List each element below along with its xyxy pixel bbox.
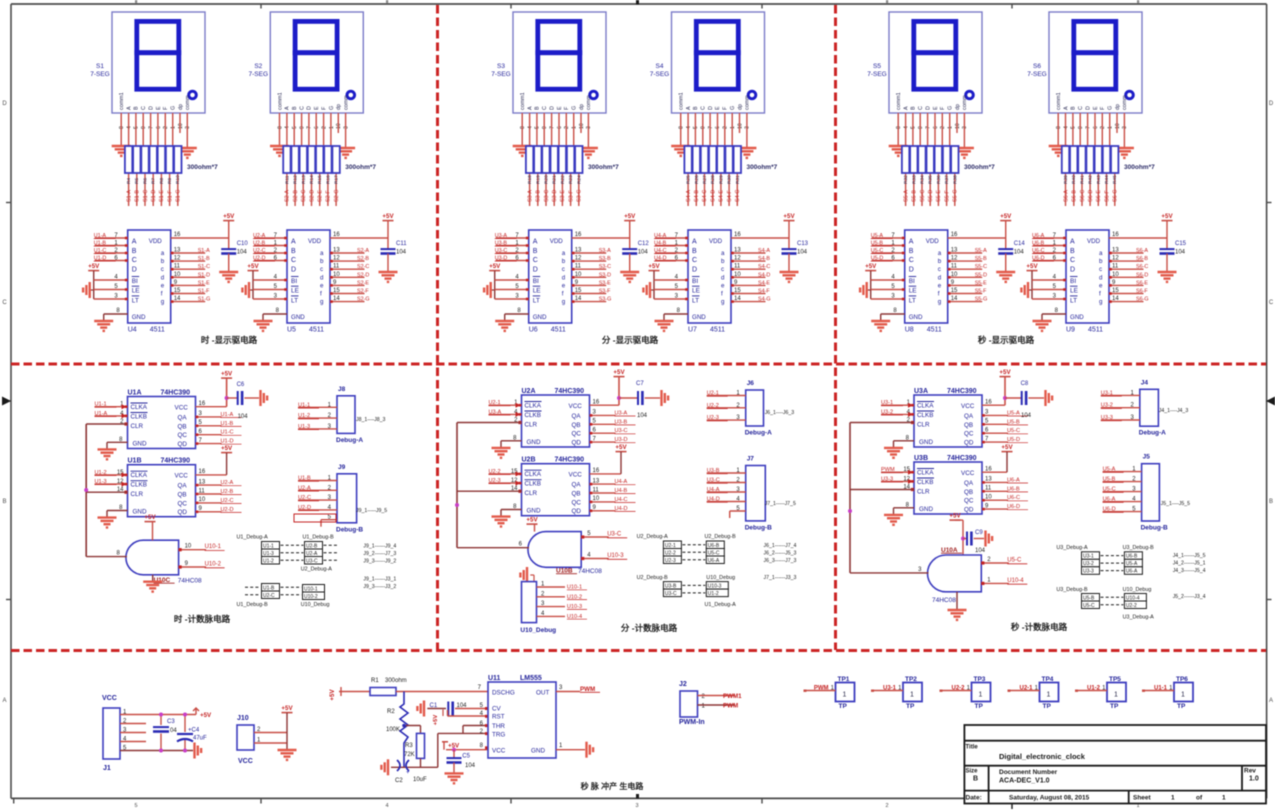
svg-text:CLKB: CLKB xyxy=(525,412,541,419)
svg-text:1: 1 xyxy=(948,126,954,129)
svg-text:S6-A: S6-A xyxy=(1136,248,1148,254)
svg-text:D: D xyxy=(692,266,697,273)
svg-text:S1-E: S1-E xyxy=(198,280,210,286)
svg-text:74HC390: 74HC390 xyxy=(947,388,977,395)
svg-text:C11: C11 xyxy=(396,241,407,247)
svg-text:8: 8 xyxy=(1056,126,1062,129)
svg-text:74HC08: 74HC08 xyxy=(932,597,956,604)
svg-text:D: D xyxy=(307,106,313,110)
svg-text:U3-1: U3-1 xyxy=(1101,390,1113,396)
svg-text:D: D xyxy=(148,106,154,110)
svg-text:16: 16 xyxy=(951,232,958,238)
svg-text:G: G xyxy=(329,106,335,110)
svg-text:S3-D: S3-D xyxy=(552,190,558,202)
svg-text:C: C xyxy=(2,300,7,306)
svg-text:VDD: VDD xyxy=(1087,238,1101,245)
svg-text:U6-D: U6-D xyxy=(1007,504,1020,510)
svg-text:10: 10 xyxy=(737,123,743,129)
svg-text:S5-C: S5-C xyxy=(920,190,926,202)
svg-text:b: b xyxy=(320,258,324,265)
svg-text:VCC: VCC xyxy=(175,473,189,480)
svg-text:QB: QB xyxy=(178,492,187,499)
svg-text:14: 14 xyxy=(575,296,582,302)
svg-text:12: 12 xyxy=(951,256,958,262)
svg-text:GND: GND xyxy=(919,439,933,446)
svg-text:7-SEG: 7-SEG xyxy=(249,71,269,78)
svg-text:16: 16 xyxy=(575,232,582,238)
svg-text:13: 13 xyxy=(174,248,181,254)
svg-text:Debug-B: Debug-B xyxy=(745,524,772,531)
svg-text:10: 10 xyxy=(575,272,582,278)
svg-text:LT: LT xyxy=(132,297,139,304)
svg-text:J2: J2 xyxy=(679,681,687,688)
svg-text:104: 104 xyxy=(1021,413,1032,419)
svg-text:3: 3 xyxy=(185,126,191,129)
svg-text:D: D xyxy=(1070,266,1075,273)
svg-text:LE: LE xyxy=(909,288,918,295)
svg-text:S1: S1 xyxy=(96,63,104,70)
svg-text:VCC: VCC xyxy=(238,758,253,765)
svg-text:12: 12 xyxy=(174,256,181,262)
svg-text:U1-2: U1-2 xyxy=(95,470,107,476)
svg-text:CLKB: CLKB xyxy=(917,479,933,486)
svg-text:comm1: comm1 xyxy=(1056,92,1062,110)
svg-text:U2_Debug-B: U2_Debug-B xyxy=(637,575,669,581)
svg-text:QC: QC xyxy=(572,431,582,438)
svg-text:U11: U11 xyxy=(488,675,501,682)
svg-text:U2-3: U2-3 xyxy=(707,415,719,421)
svg-text:R19: R19 xyxy=(535,175,541,184)
svg-text:S6-C: S6-C xyxy=(1136,264,1148,270)
svg-text:CV: CV xyxy=(492,706,502,713)
svg-text:GND: GND xyxy=(291,314,305,321)
svg-text:J4_2------J5_1: J4_2------J5_1 xyxy=(1173,561,1206,567)
svg-text:C15: C15 xyxy=(1175,241,1187,247)
svg-text:J6_2------J5_3: J6_2------J5_3 xyxy=(764,551,797,557)
svg-text:1: 1 xyxy=(1181,692,1185,699)
svg-text:U2-1: U2-1 xyxy=(1019,686,1033,692)
svg-text:14: 14 xyxy=(333,296,340,302)
svg-text:E: E xyxy=(156,106,162,110)
svg-text:13: 13 xyxy=(1112,248,1119,254)
svg-text:QD: QD xyxy=(178,509,188,516)
svg-text:R11: R11 xyxy=(284,175,290,184)
svg-text:CLKB: CLKB xyxy=(131,414,147,421)
svg-text:S1-B: S1-B xyxy=(135,190,141,202)
svg-text:B: B xyxy=(2,499,6,505)
svg-text:S4-A: S4-A xyxy=(686,190,692,202)
svg-text:74HC08: 74HC08 xyxy=(178,578,202,585)
svg-text:U1A: U1A xyxy=(128,390,142,397)
svg-text:300ohm: 300ohm xyxy=(385,678,407,684)
svg-text:9: 9 xyxy=(1078,126,1084,129)
svg-text:S5-F: S5-F xyxy=(944,190,950,202)
svg-text:U3-C: U3-C xyxy=(615,428,628,434)
svg-text:VDD: VDD xyxy=(149,238,163,245)
svg-text:U3-B: U3-B xyxy=(665,583,677,589)
svg-text:U2-D: U2-D xyxy=(298,505,311,511)
svg-text:S5-E: S5-E xyxy=(936,190,942,202)
svg-text:A: A xyxy=(2,698,6,704)
svg-text:R6: R6 xyxy=(143,178,149,184)
svg-text:+5V: +5V xyxy=(247,263,259,270)
svg-text:U1-1: U1-1 xyxy=(298,402,310,408)
svg-text:15: 15 xyxy=(951,288,958,294)
svg-text:R27: R27 xyxy=(702,175,708,184)
svg-text:U5-C: U5-C xyxy=(1007,428,1020,434)
svg-text:1: 1 xyxy=(730,126,736,129)
svg-text:TP: TP xyxy=(906,703,915,710)
svg-text:E: E xyxy=(933,106,939,110)
svg-text:R9: R9 xyxy=(167,178,173,184)
svg-text:16: 16 xyxy=(1112,232,1119,238)
svg-text:E: E xyxy=(557,106,563,110)
svg-text:+5V: +5V xyxy=(1000,213,1012,220)
svg-text:A: A xyxy=(903,106,909,110)
svg-text:S3-C: S3-C xyxy=(544,190,550,202)
svg-text:b: b xyxy=(1099,258,1103,265)
svg-text:S3-F: S3-F xyxy=(568,190,574,202)
svg-text:G: G xyxy=(572,106,578,110)
svg-text:C10: C10 xyxy=(237,241,249,247)
svg-text:13: 13 xyxy=(333,248,340,254)
svg-text:S1-F: S1-F xyxy=(167,190,173,202)
svg-text:S3-G: S3-G xyxy=(577,189,583,202)
svg-text:S4-A: S4-A xyxy=(758,248,770,254)
svg-text:f: f xyxy=(1099,291,1101,298)
svg-text:GND: GND xyxy=(133,441,147,448)
svg-text:S5-B: S5-B xyxy=(912,190,918,202)
svg-text:S4-D: S4-D xyxy=(758,272,770,278)
svg-text:Rev: Rev xyxy=(1244,768,1256,775)
svg-text:R21: R21 xyxy=(552,175,558,184)
svg-text:S4-F: S4-F xyxy=(758,289,770,295)
svg-text:S2-G: S2-G xyxy=(334,189,340,202)
svg-text:C3: C3 xyxy=(167,719,175,725)
svg-text:1: 1 xyxy=(329,126,335,129)
svg-text:S4-G: S4-G xyxy=(735,189,741,202)
svg-text:C: C xyxy=(909,257,914,264)
svg-text:U4-D: U4-D xyxy=(615,506,628,512)
svg-text:U3-3: U3-3 xyxy=(1101,415,1113,421)
svg-text:72K: 72K xyxy=(404,752,415,758)
svg-text:74HC08: 74HC08 xyxy=(578,568,602,575)
svg-text:U2B: U2B xyxy=(522,457,536,464)
svg-text:R38: R38 xyxy=(952,175,958,184)
svg-text:A: A xyxy=(132,239,137,246)
svg-text:13: 13 xyxy=(199,479,206,485)
svg-text:10: 10 xyxy=(1115,123,1121,129)
svg-text:+5V: +5V xyxy=(200,712,212,719)
svg-text:comm1: comm1 xyxy=(896,92,902,110)
svg-text:3: 3 xyxy=(635,803,638,809)
svg-text:R23: R23 xyxy=(568,175,574,184)
svg-text:13: 13 xyxy=(575,248,582,254)
svg-text:f: f xyxy=(320,291,322,298)
svg-text:S2-E: S2-E xyxy=(357,280,369,286)
svg-text:S5-B: S5-B xyxy=(975,256,987,262)
svg-text:104: 104 xyxy=(797,250,808,256)
svg-text:6: 6 xyxy=(314,126,320,129)
svg-text:G: G xyxy=(171,106,177,110)
svg-text:LT: LT xyxy=(533,297,540,304)
svg-text:U2-2: U2-2 xyxy=(707,403,719,409)
svg-text:S6: S6 xyxy=(1033,63,1041,70)
svg-text:R1: R1 xyxy=(371,678,379,684)
svg-text:10: 10 xyxy=(185,544,192,550)
svg-text:B: B xyxy=(292,106,298,110)
svg-text:S3: S3 xyxy=(497,63,505,70)
svg-text:U10-1: U10-1 xyxy=(205,544,222,550)
svg-text:R12: R12 xyxy=(293,175,299,184)
svg-text:1: 1 xyxy=(1222,795,1226,802)
svg-text:S5-C: S5-C xyxy=(975,264,987,270)
svg-text:S4: S4 xyxy=(656,63,664,70)
svg-text:A: A xyxy=(527,106,533,110)
svg-text:QB: QB xyxy=(572,422,581,429)
svg-text:g: g xyxy=(320,299,324,306)
svg-text:J7_1------J3_3: J7_1------J3_3 xyxy=(764,575,797,581)
svg-text:R15: R15 xyxy=(317,175,323,184)
svg-text:4511: 4511 xyxy=(551,327,566,334)
svg-text:C8: C8 xyxy=(1021,381,1029,387)
svg-text:S1-A: S1-A xyxy=(126,190,132,202)
svg-text:104: 104 xyxy=(975,548,986,554)
svg-text:14: 14 xyxy=(734,296,741,302)
svg-text:Document Number: Document Number xyxy=(999,769,1058,776)
svg-text:S3-G: S3-G xyxy=(599,297,612,303)
svg-text:R18: R18 xyxy=(527,175,533,184)
svg-text:2: 2 xyxy=(321,126,327,129)
svg-text:16: 16 xyxy=(734,232,741,238)
svg-text:VCC: VCC xyxy=(569,403,583,410)
svg-text:U6-B: U6-B xyxy=(1007,486,1020,492)
svg-text:+5V: +5V xyxy=(615,444,627,451)
svg-text:U2-A: U2-A xyxy=(306,551,318,557)
svg-text:S1-D: S1-D xyxy=(151,190,157,202)
svg-text:5: 5 xyxy=(535,126,541,129)
svg-text:TP: TP xyxy=(1177,703,1186,710)
svg-text:VCC: VCC xyxy=(492,748,506,755)
svg-text:GND: GND xyxy=(527,508,541,515)
svg-text:U5-C: U5-C xyxy=(1083,603,1095,609)
svg-text:S2-E: S2-E xyxy=(318,190,324,202)
svg-text:QB: QB xyxy=(572,491,581,498)
svg-text:15: 15 xyxy=(734,288,741,294)
svg-text:10: 10 xyxy=(336,123,342,129)
svg-text:11: 11 xyxy=(333,264,340,270)
svg-text:R13: R13 xyxy=(301,175,307,184)
svg-text:7: 7 xyxy=(925,126,931,129)
svg-text:4511: 4511 xyxy=(309,327,324,334)
svg-text:U2_Debug-B: U2_Debug-B xyxy=(705,534,737,540)
svg-text:C: C xyxy=(1070,257,1075,264)
svg-text:2: 2 xyxy=(1100,126,1106,129)
svg-text:J4_1------J5_5: J4_1------J5_5 xyxy=(1173,553,1206,559)
svg-text:U3_Debug-A: U3_Debug-A xyxy=(1056,545,1088,551)
svg-text:S1-A: S1-A xyxy=(198,248,210,254)
svg-text:U10-2: U10-2 xyxy=(205,562,222,568)
svg-text:U6-D: U6-D xyxy=(1103,507,1116,513)
svg-text:OUT: OUT xyxy=(536,690,549,697)
svg-text:QA: QA xyxy=(178,483,188,490)
svg-text:U1-B: U1-B xyxy=(263,585,275,591)
svg-text:R43: R43 xyxy=(1096,175,1102,184)
svg-text:+5V: +5V xyxy=(221,445,233,452)
svg-text:S3-E: S3-E xyxy=(599,280,611,286)
svg-text:BI: BI xyxy=(1070,278,1076,285)
svg-text:S5-A: S5-A xyxy=(903,190,909,202)
svg-text:BI: BI xyxy=(291,278,297,285)
svg-text:S4-B: S4-B xyxy=(694,190,700,202)
svg-text:GND: GND xyxy=(533,314,547,321)
svg-text:S6-D: S6-D xyxy=(1088,190,1094,202)
svg-text:U1-B: U1-B xyxy=(221,421,234,427)
svg-text:LM555: LM555 xyxy=(520,675,542,682)
svg-text:CLKB: CLKB xyxy=(525,481,541,488)
svg-text:g: g xyxy=(938,299,942,306)
svg-text:Sheet: Sheet xyxy=(1133,795,1152,802)
svg-text:12: 12 xyxy=(575,256,582,262)
svg-text:J8_1----J8_3: J8_1----J8_3 xyxy=(356,417,386,423)
svg-text:C: C xyxy=(1078,106,1084,110)
svg-text:R10: R10 xyxy=(175,175,181,184)
svg-text:300ohm*7: 300ohm*7 xyxy=(964,164,995,171)
svg-text:TP: TP xyxy=(839,703,848,710)
svg-text:R14: R14 xyxy=(309,175,315,184)
svg-text:104: 104 xyxy=(465,763,476,769)
svg-text:J4_3------J5_4: J4_3------J5_4 xyxy=(1173,568,1206,574)
svg-text:+5V: +5V xyxy=(223,213,235,220)
svg-text:c: c xyxy=(161,266,164,273)
svg-text:J6_3------J7_3: J6_3------J7_3 xyxy=(764,558,797,564)
svg-text:100K: 100K xyxy=(386,727,400,733)
svg-text:11: 11 xyxy=(593,487,600,493)
svg-text:1: 1 xyxy=(1171,795,1175,802)
svg-text:U1_Debug-B: U1_Debug-B xyxy=(303,535,335,541)
svg-text:R33: R33 xyxy=(911,175,917,184)
svg-text:BI: BI xyxy=(533,278,539,285)
svg-text:S1-C: S1-C xyxy=(143,190,149,202)
svg-text:16: 16 xyxy=(985,467,992,473)
svg-text:U10_Debug: U10_Debug xyxy=(1123,587,1152,593)
svg-text:S3-B: S3-B xyxy=(536,190,542,202)
svg-text:C: C xyxy=(299,106,305,110)
svg-text:VCC: VCC xyxy=(961,470,975,477)
svg-text:U2-C: U2-C xyxy=(298,495,311,501)
svg-text:R28: R28 xyxy=(710,175,716,184)
svg-text:C: C xyxy=(701,106,707,110)
svg-text:PWM: PWM xyxy=(814,686,829,692)
svg-text:b: b xyxy=(721,258,725,265)
svg-text:J5_2------J3_4: J5_2------J3_4 xyxy=(1173,594,1206,600)
svg-text:U5-D: U5-D xyxy=(1007,437,1020,443)
svg-text:R30: R30 xyxy=(727,175,733,184)
svg-text:E: E xyxy=(314,106,320,110)
svg-text:S5-E: S5-E xyxy=(975,280,987,286)
svg-text:g: g xyxy=(161,299,165,306)
svg-text:10: 10 xyxy=(174,272,181,278)
svg-text:1: 1 xyxy=(1114,692,1118,699)
svg-text:9: 9 xyxy=(542,126,548,129)
svg-text:7-SEG: 7-SEG xyxy=(1027,71,1047,78)
svg-text:U10-2: U10-2 xyxy=(304,594,318,600)
svg-text:comm1: comm1 xyxy=(520,92,526,110)
svg-text:S4-B: S4-B xyxy=(758,256,770,262)
svg-text:dp: dp xyxy=(336,104,342,110)
svg-text:C13: C13 xyxy=(797,241,809,247)
svg-text:U3_Debug-B: U3_Debug-B xyxy=(1056,587,1088,593)
svg-text:+5V: +5V xyxy=(1001,444,1013,451)
svg-text:B: B xyxy=(973,776,978,783)
svg-text:U3-2: U3-2 xyxy=(1083,561,1094,567)
svg-text:U3-1: U3-1 xyxy=(883,686,897,692)
svg-text:E: E xyxy=(1093,106,1099,110)
svg-text:GND: GND xyxy=(1070,314,1084,321)
svg-text:U2-A: U2-A xyxy=(298,485,311,491)
svg-text:D: D xyxy=(291,266,296,273)
svg-text:+: + xyxy=(406,770,410,776)
svg-text:GND: GND xyxy=(527,439,541,446)
svg-text:f: f xyxy=(938,291,940,298)
svg-text:U1-3: U1-3 xyxy=(263,551,274,557)
svg-text:秒 -计数脉电路: 秒 -计数脉电路 xyxy=(1011,622,1068,632)
svg-text:GND: GND xyxy=(132,314,146,321)
svg-text:秒 -显示驱电路: 秒 -显示驱电路 xyxy=(978,335,1035,345)
svg-text:4: 4 xyxy=(1063,126,1069,129)
svg-text:5: 5 xyxy=(292,126,298,129)
svg-text:3: 3 xyxy=(1122,126,1128,129)
svg-text:U6-C: U6-C xyxy=(1007,495,1020,501)
svg-text:S3-A: S3-A xyxy=(527,190,533,202)
svg-text:S4-C: S4-C xyxy=(758,264,770,270)
svg-text:CLKB: CLKB xyxy=(917,412,933,419)
svg-text:300ohm*7: 300ohm*7 xyxy=(187,164,218,171)
svg-text:10: 10 xyxy=(734,272,741,278)
svg-text:QD: QD xyxy=(178,441,188,448)
svg-text:10: 10 xyxy=(333,272,340,278)
svg-text:J6_1----J6_3: J6_1----J6_3 xyxy=(765,410,795,416)
svg-text:8: 8 xyxy=(896,126,902,129)
svg-text:U8: U8 xyxy=(905,327,914,334)
svg-text:S5-A: S5-A xyxy=(975,248,987,254)
svg-text:D: D xyxy=(925,106,931,110)
svg-text:R4: R4 xyxy=(126,178,132,184)
svg-text:A: A xyxy=(285,106,291,110)
svg-text:d: d xyxy=(721,274,725,281)
svg-text:VDD: VDD xyxy=(308,238,322,245)
svg-text:Saturday, August 08, 2015: Saturday, August 08, 2015 xyxy=(1009,795,1090,802)
svg-text:U10-4: U10-4 xyxy=(1126,595,1140,601)
svg-text:4: 4 xyxy=(285,126,291,129)
svg-text:S4-F: S4-F xyxy=(727,190,733,202)
svg-text:S5-G: S5-G xyxy=(953,189,959,202)
svg-text:QD: QD xyxy=(572,508,582,515)
svg-text:a: a xyxy=(938,250,942,257)
svg-text:a: a xyxy=(161,250,165,257)
svg-text:U1-A: U1-A xyxy=(95,411,108,417)
svg-text:74HC390: 74HC390 xyxy=(161,458,191,465)
svg-text:J4: J4 xyxy=(1141,379,1149,386)
svg-text:CLR: CLR xyxy=(131,491,144,498)
svg-text:A: A xyxy=(1070,239,1075,246)
svg-text:104: 104 xyxy=(457,703,468,709)
svg-text:c: c xyxy=(562,266,565,273)
svg-text:4: 4 xyxy=(527,126,533,129)
svg-text:QA: QA xyxy=(178,415,188,422)
svg-text:7: 7 xyxy=(1085,126,1091,129)
svg-text:8: 8 xyxy=(679,126,685,129)
